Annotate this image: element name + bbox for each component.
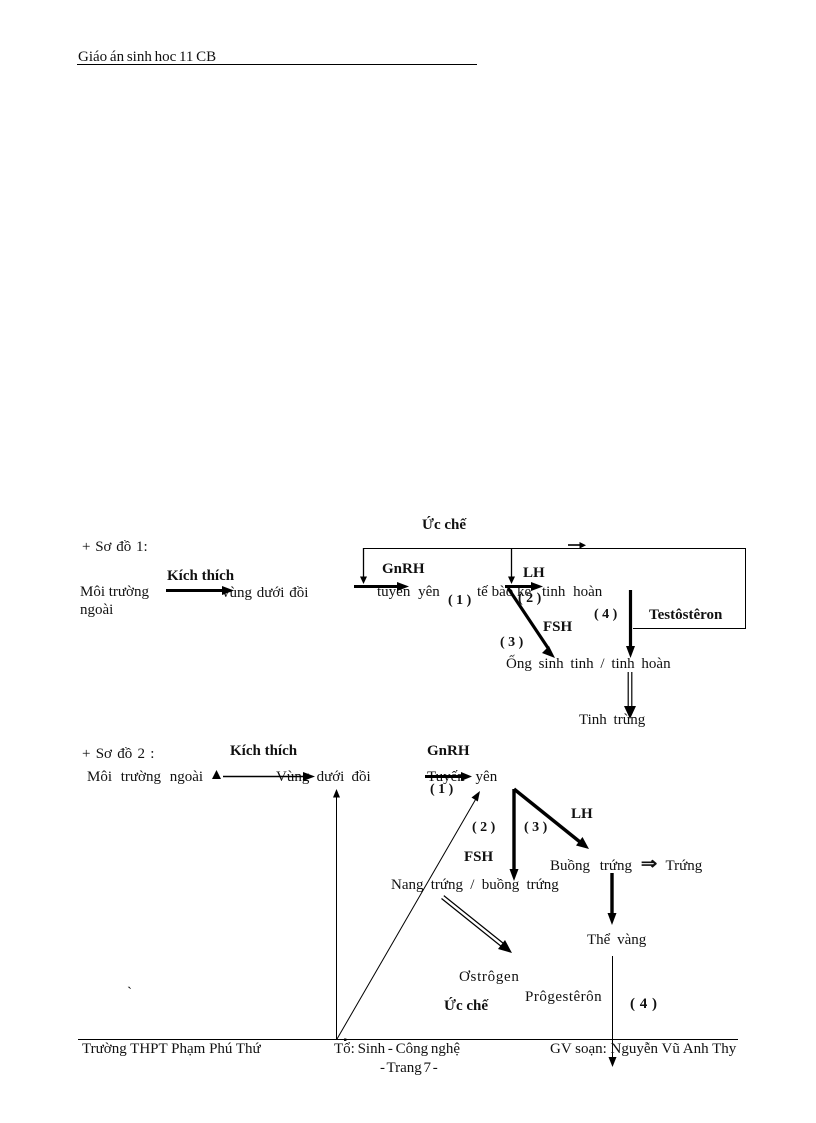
node: Moi truong ngoai (1) xyxy=(80,584,149,619)
footer: school name xyxy=(82,1041,261,1057)
label: LH (1) xyxy=(523,565,545,581)
wire: feedback bottom segment to Testosteron xyxy=(633,628,746,630)
arrow: down to tuyen yen xyxy=(360,548,367,584)
node: Buong trung => Trung xyxy=(550,857,702,874)
node: vung duoi doi (1) xyxy=(222,585,308,601)
wire: footer horizontal line xyxy=(78,1039,738,1041)
node: Nang trung / buong trung xyxy=(391,877,559,893)
arrow: thick GnRH arrow (1) xyxy=(354,582,409,591)
node: Ong sinh tinh / tinh hoan xyxy=(506,656,671,672)
footer: teacher xyxy=(550,1041,736,1057)
node: Tuyen yen (2) xyxy=(427,769,497,785)
footer: department xyxy=(334,1041,460,1057)
arrow: thick LH diagonal (2) xyxy=(514,789,589,849)
label: LH (2) xyxy=(571,806,593,822)
node: The vang xyxy=(587,932,646,948)
arrow: small right arrow above feedback line xyxy=(568,542,586,549)
footer: page number xyxy=(380,1060,438,1076)
stray dot above footer line xyxy=(344,1039,346,1041)
node: Moi truong ngoai (2) xyxy=(87,769,203,785)
node: Tinh trung xyxy=(579,712,645,728)
node: te bao ke xyxy=(477,584,531,600)
wire: diagonal feedback line up to Tuyen yen xyxy=(337,791,480,1039)
label: + So do 2 : xyxy=(82,746,154,762)
label: FSH (1) xyxy=(543,619,572,635)
label: Kich thich (bold, diagram 1) xyxy=(167,568,234,584)
label: Uc che (diagram 2) xyxy=(444,998,488,1014)
arrow: double-line arrow to Ostrogen xyxy=(442,896,513,953)
wire: feedback top line (diagram 1) xyxy=(363,548,746,550)
label: (4) diagram2 xyxy=(630,996,657,1012)
arrow: thick Buong trung to The vang xyxy=(608,873,617,925)
label: Testosteron xyxy=(649,607,722,623)
label: FSH (2) xyxy=(464,849,493,865)
label: (2) diagram1 xyxy=(518,591,541,607)
label: (3) diagram1 xyxy=(500,635,523,651)
arrow: thick FSH diagonal (1) xyxy=(508,588,555,658)
label: (4) diagram1 xyxy=(594,607,617,623)
header text: Giao an sinh hoc 11 CB xyxy=(78,49,216,65)
arrow: thick GnRH arrow (2) xyxy=(425,772,472,781)
arrow: double-line arrow to Tinh trung xyxy=(624,672,636,719)
node: tinh hoan xyxy=(542,584,602,600)
label: + So do 1: xyxy=(82,539,148,555)
arrow: thick down arrow (4) to Ong sinh tinh xyxy=(626,590,635,658)
node: Vung duoi doi (2) xyxy=(276,769,371,785)
wire: vertical feedback line up to Vung duoi doi xyxy=(333,789,340,1039)
label: (3) diagram2 xyxy=(524,820,547,836)
label: GnRH (2) xyxy=(427,743,470,759)
stray mark (grave accent) xyxy=(127,985,132,1001)
label: GnRH (1) xyxy=(382,561,425,577)
label: (2) diagram2 xyxy=(472,820,495,836)
arrow: thin line The vang down through footer (4) xyxy=(609,956,617,1067)
label: (1) diagram1 xyxy=(448,593,471,609)
arrow: down to te bao ke xyxy=(508,548,515,584)
node: tuyen yen (1) xyxy=(377,584,440,600)
arrow: Kich thich thin arrow (2) xyxy=(223,772,315,781)
arrow: thick FSH vertical (2) xyxy=(510,789,519,881)
label: Uc che (diagram 1) xyxy=(422,517,466,533)
arrow: thick Kich thich arrow (1) xyxy=(166,586,234,595)
label: Kich thich (bold, diagram 2) xyxy=(230,743,297,759)
arrow: thick LH arrow (1) xyxy=(505,582,543,591)
label: (1) diagram2 xyxy=(430,782,453,798)
wire: feedback right vertical (diagram 1) xyxy=(745,548,747,629)
marker: small up triangle after Moi truong ngoai xyxy=(212,770,221,779)
node: Ostrogen xyxy=(459,969,520,985)
node: Progesteron xyxy=(525,989,602,1005)
